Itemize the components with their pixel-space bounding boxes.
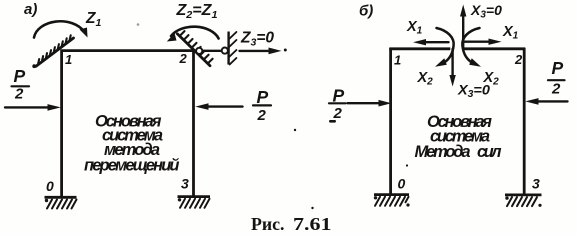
- Z1 arrowhead: [80, 28, 88, 38]
- svg-text:P: P: [257, 87, 269, 107]
- svg-text:2: 2: [179, 51, 188, 66]
- beam 1-2: [61, 49, 196, 52]
- hinge circle at node 2: [196, 48, 202, 54]
- svg-text:Метода: Метода: [415, 143, 471, 161]
- Z2 arrowhead: [167, 33, 177, 42]
- dot after Z3 arrow: [284, 49, 287, 52]
- support link bar: [195, 50, 225, 52]
- svg-text:Z2=Z1: Z2=Z1: [175, 2, 217, 21]
- Z2 moment arc: [171, 27, 219, 39]
- roller wall hatching: [230, 32, 237, 65]
- text block (a): [84, 112, 180, 174]
- X2 right moment arc: [462, 28, 479, 64]
- P/2 right arrow (b): [537, 100, 568, 102]
- ground support 0 (b): [374, 193, 409, 196]
- P/2 right fraction bar (a): [253, 104, 271, 106]
- ground support 0 (a): [45, 196, 77, 199]
- Z1 moment arc: [34, 21, 84, 37]
- clamp hatching node 2: [180, 31, 212, 63]
- X2 left moment arc: [437, 28, 454, 64]
- svg-text:1: 1: [65, 52, 72, 67]
- beam right segment: [464, 47, 525, 50]
- svg-text:1: 1: [394, 53, 401, 68]
- Z3 arrow: [240, 50, 271, 52]
- P/2 left fraction bar (a): [12, 85, 30, 87]
- clamp diagonal at node 1: [36, 38, 74, 66]
- noise specks: [294, 129, 296, 131]
- roller wall: [227, 32, 229, 65]
- svg-text:P: P: [14, 66, 26, 86]
- svg-text:X3=0: X3=0: [457, 82, 490, 101]
- P/2 left arrow (b): [348, 102, 381, 104]
- svg-text:3: 3: [181, 176, 189, 192]
- svg-text:сил: сил: [477, 143, 502, 161]
- svg-text:2: 2: [14, 85, 24, 102]
- svg-text:2: 2: [333, 105, 343, 122]
- text block (b): [415, 113, 502, 161]
- svg-text:Z3=0: Z3=0: [240, 29, 274, 48]
- svg-text:2: 2: [551, 80, 561, 97]
- svg-text:P: P: [552, 58, 564, 78]
- column 2-3: [192, 50, 195, 196]
- column 2-3 (b): [523, 48, 526, 194]
- svg-text:а): а): [24, 1, 37, 18]
- svg-text:3: 3: [532, 176, 540, 192]
- svg-text:7.61: 7.61: [293, 214, 332, 234]
- column 1-0: [60, 50, 63, 197]
- svg-text:0: 0: [398, 176, 406, 192]
- ground support 3 (a): [178, 195, 211, 198]
- clamp hatching node 1: [38, 35, 71, 65]
- P/2 left arrow (a): [5, 106, 49, 108]
- svg-text:2: 2: [514, 52, 523, 67]
- hinge circle at wall: [222, 48, 228, 54]
- ground support 3 (b): [505, 193, 542, 196]
- P/2 right fraction bar (b): [548, 79, 565, 81]
- X1 left arrow: [425, 41, 449, 43]
- column 1-0 (b): [389, 48, 392, 194]
- P/2 right arrow (a): [207, 105, 243, 107]
- beam left segment: [389, 47, 450, 50]
- svg-text:0: 0: [46, 178, 54, 194]
- X1 right arrow: [465, 41, 490, 43]
- svg-text:Рис.: Рис.: [251, 214, 285, 234]
- clamp diagonal at node 2: [177, 34, 210, 66]
- X3 up arrow: [462, 13, 464, 50]
- svg-text:P: P: [333, 85, 345, 105]
- svg-text:б): б): [359, 3, 373, 20]
- svg-text:X3=0: X3=0: [470, 2, 502, 21]
- blob at clamp end node 1: [32, 64, 36, 68]
- svg-text:перемещений: перемещений: [84, 156, 180, 174]
- X3 down arrow: [451, 49, 453, 77]
- P/2 left fraction bar (b): [329, 102, 346, 104]
- svg-text:2: 2: [257, 107, 267, 124]
